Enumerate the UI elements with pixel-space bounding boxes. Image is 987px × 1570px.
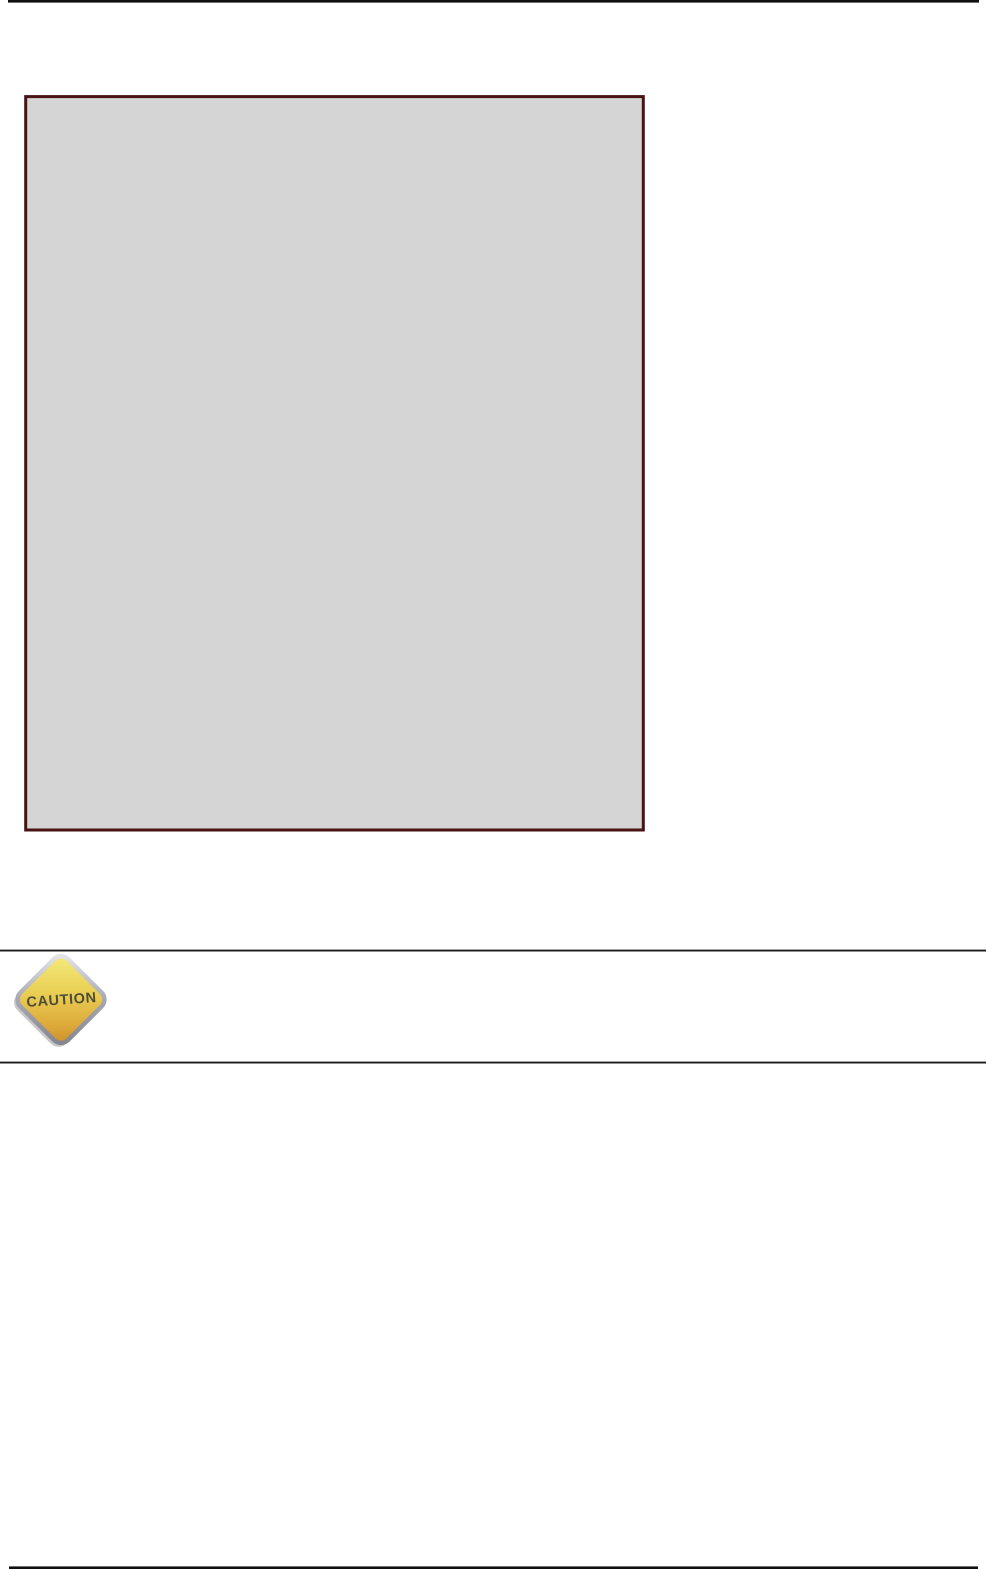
caution icon diamond <box>13 952 108 1047</box>
top rule <box>8 0 979 3</box>
caution bottom rule <box>0 1062 986 1064</box>
caution icon shadow <box>10 954 108 1052</box>
schematic frame box <box>26 97 644 830</box>
bottom rule <box>9 1566 978 1569</box>
caution top rule <box>0 950 986 952</box>
